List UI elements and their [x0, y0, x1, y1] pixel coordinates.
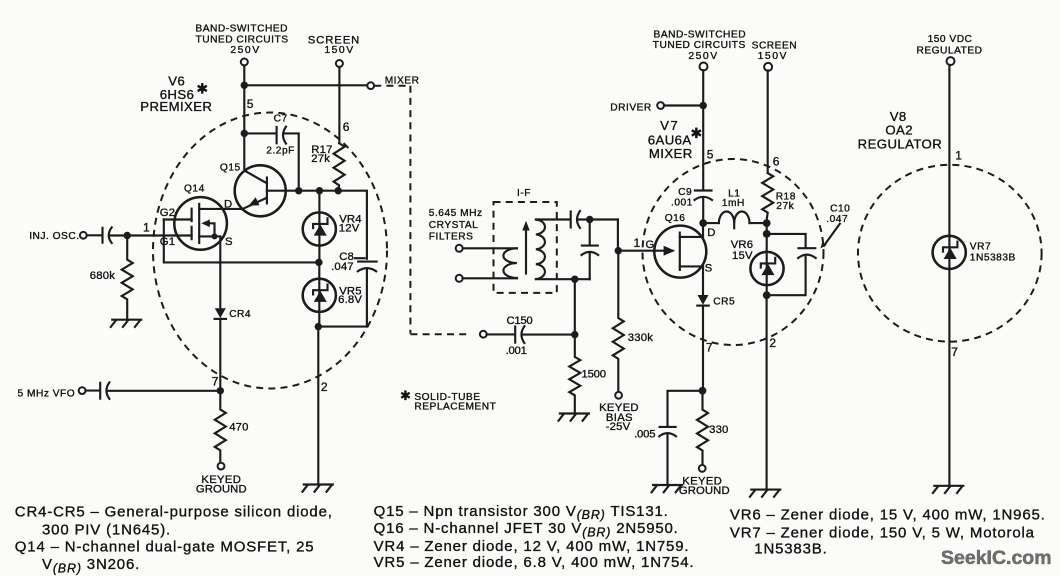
svg-text:OA2: OA2: [885, 123, 913, 138]
svg-text:G1: G1: [160, 236, 175, 248]
svg-text:Q16 – N-channel JFET 30 V(BR): Q16 – N-channel JFET 30 V(BR) 2N5950.: [374, 520, 679, 539]
svg-text:1: 1: [143, 221, 150, 235]
svg-text:15V: 15V: [732, 250, 753, 262]
svg-text:1mH: 1mH: [722, 198, 745, 209]
svg-text:GROUND: GROUND: [196, 483, 247, 495]
svg-text:✱: ✱: [196, 81, 208, 97]
svg-text:BAND-SWITCHED: BAND-SWITCHED: [654, 30, 747, 41]
svg-text:CRYSTAL: CRYSTAL: [429, 220, 479, 231]
svg-text:-25V: -25V: [606, 421, 631, 433]
svg-text:BAND-SWITCHED: BAND-SWITCHED: [195, 24, 288, 35]
svg-text:27k: 27k: [311, 153, 330, 165]
svg-text:Q14 – N-channel dual-gate MOSF: Q14 – N-channel dual-gate MOSFET, 25: [15, 539, 315, 556]
svg-text:470: 470: [229, 422, 248, 434]
svg-text:2.2pF: 2.2pF: [266, 146, 295, 157]
svg-text:150V: 150V: [324, 45, 354, 56]
svg-text:150V: 150V: [758, 51, 788, 62]
svg-text:MIXER: MIXER: [649, 146, 693, 161]
svg-text:✱: ✱: [690, 125, 702, 141]
svg-text:MIXER: MIXER: [385, 75, 420, 86]
svg-text:1: 1: [955, 148, 962, 162]
svg-text:680k: 680k: [90, 270, 115, 282]
svg-text:.001: .001: [506, 345, 527, 357]
svg-text:S: S: [705, 263, 713, 275]
svg-text:D: D: [224, 199, 232, 211]
svg-text:VR7 – Zener diode, 150 V, 5 W,: VR7 – Zener diode, 150 V, 5 W, Motorola: [730, 525, 1035, 542]
svg-text:Q16: Q16: [665, 213, 686, 224]
svg-text:C10: C10: [830, 204, 850, 215]
svg-text:C7: C7: [274, 114, 288, 125]
svg-text:REGULATOR: REGULATOR: [858, 136, 942, 151]
svg-text:VR6 – Zener diode, 15 V, 400 m: VR6 – Zener diode, 15 V, 400 mW, 1N965.: [730, 507, 1046, 524]
svg-text:1N5383B: 1N5383B: [970, 252, 1016, 263]
svg-text:5.645 MHz: 5.645 MHz: [429, 208, 483, 219]
svg-text:27k: 27k: [776, 201, 794, 212]
svg-text:S: S: [225, 236, 233, 248]
svg-text:250V: 250V: [688, 51, 718, 62]
svg-text:REGULATED: REGULATED: [916, 45, 982, 56]
svg-text:VR7: VR7: [970, 241, 991, 252]
svg-text:CR5: CR5: [713, 296, 735, 307]
svg-text:6: 6: [343, 120, 350, 134]
svg-text:.005: .005: [634, 429, 655, 441]
svg-text:1N5383B.: 1N5383B.: [754, 541, 827, 558]
svg-text:1: 1: [634, 236, 641, 250]
svg-text:CR4-CR5 – General-purpose sili: CR4-CR5 – General-purpose silicon diode,: [15, 503, 333, 520]
svg-text:REPLACEMENT: REPLACEMENT: [414, 402, 496, 413]
svg-text:V7: V7: [660, 118, 679, 133]
svg-text:C9: C9: [678, 187, 692, 198]
svg-text:7: 7: [951, 345, 958, 359]
svg-text:Q14: Q14: [184, 183, 205, 194]
svg-text:6: 6: [773, 155, 780, 169]
svg-text:2: 2: [321, 380, 328, 394]
svg-text:INJ. OSC.: INJ. OSC.: [29, 231, 79, 242]
svg-text:TUNED CIRCUITS: TUNED CIRCUITS: [653, 40, 746, 51]
svg-text:G: G: [646, 239, 655, 251]
svg-text:2: 2: [769, 336, 776, 350]
svg-text:5: 5: [247, 97, 254, 111]
svg-text:TUNED CIRCUITS: TUNED CIRCUITS: [195, 34, 288, 45]
svg-text:5 MHz VFO: 5 MHz VFO: [18, 389, 76, 400]
svg-text:D: D: [707, 227, 715, 239]
svg-text:VR4 – Zener diode, 12 V, 400 m: VR4 – Zener diode, 12 V, 400 mW, 1N759.: [374, 538, 690, 555]
svg-text:300 PIV (1N645).: 300 PIV (1N645).: [42, 521, 171, 538]
svg-text:VR5 – Zener diode, 6.8 V, 400: VR5 – Zener diode, 6.8 V, 400 mW, 1N754.: [374, 554, 695, 571]
svg-text:SCREEN: SCREEN: [752, 41, 797, 52]
svg-text:7: 7: [706, 341, 713, 355]
svg-text:330: 330: [709, 424, 728, 436]
svg-text:250V: 250V: [230, 45, 260, 56]
svg-text:7: 7: [212, 375, 219, 389]
svg-text:150 VDC: 150 VDC: [928, 34, 973, 45]
svg-text:✱: ✱: [400, 388, 411, 403]
svg-text:.001: .001: [671, 197, 693, 208]
svg-text:5: 5: [707, 147, 714, 161]
svg-text:Q15: Q15: [220, 163, 241, 174]
svg-text:PREMIXER: PREMIXER: [140, 99, 212, 114]
svg-text:330k: 330k: [628, 332, 653, 344]
svg-text:DRIVER: DRIVER: [610, 102, 652, 113]
svg-text:1500: 1500: [582, 369, 606, 381]
svg-text:6.8V: 6.8V: [338, 294, 362, 306]
svg-text:C150: C150: [507, 315, 533, 327]
svg-text:SeekIC.com: SeekIC.com: [941, 547, 1052, 569]
svg-text:G2: G2: [160, 207, 175, 219]
svg-text:CR4: CR4: [229, 309, 251, 320]
svg-text:.047: .047: [826, 214, 848, 225]
svg-text:.047: .047: [331, 261, 354, 273]
svg-text:12V: 12V: [339, 223, 360, 235]
svg-text:GROUND: GROUND: [679, 485, 730, 497]
svg-text:I-F: I-F: [517, 188, 531, 199]
svg-text:FILTERS: FILTERS: [429, 232, 474, 243]
